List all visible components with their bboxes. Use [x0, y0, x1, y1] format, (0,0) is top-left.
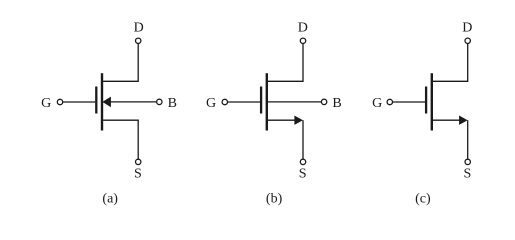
body arrow (a) pointing into channel [102, 97, 111, 108]
wire source lead (b) [268, 119, 296, 121]
gate bar (a) [95, 87, 97, 114]
transistor (b) 4-terminal MOSFET with source arrow [222, 38, 327, 164]
channel bar (b) [266, 73, 268, 130]
svg-text:B: B [168, 96, 177, 111]
transistor (c) 3-terminal MOSFET with source arrow [387, 38, 470, 164]
svg-text:S: S [464, 167, 472, 182]
svg-text:D: D [134, 21, 144, 36]
svg-text:D: D [298, 21, 308, 36]
channel bar (c) [431, 73, 433, 130]
source arrow (c) pointing out [459, 116, 468, 125]
wire body lead (b) [268, 101, 321, 103]
node D terminal circle (b) [300, 38, 305, 43]
svg-text:(c): (c) [415, 192, 431, 207]
channel bar (a) [101, 73, 103, 130]
svg-text:G: G [41, 96, 51, 111]
wire gate lead (b) [228, 101, 260, 103]
svg-text:B: B [332, 96, 341, 111]
transistor (a) 4-terminal MOSFET [57, 38, 162, 164]
gate bar (c) [425, 87, 427, 114]
node S terminal circle (b) [300, 159, 305, 164]
wire source lead (c) [433, 119, 460, 121]
svg-text:G: G [372, 96, 382, 111]
svg-text:S: S [134, 167, 142, 182]
svg-text:(b): (b) [266, 192, 283, 207]
wire body lead (a) [110, 101, 157, 103]
wire drain lead (b) [268, 44, 303, 81]
gate bar (b) [260, 87, 262, 114]
svg-text:D: D [462, 21, 472, 36]
wire source drop (c) [467, 120, 469, 159]
wire drain lead (c) [433, 44, 468, 81]
source arrow (b) pointing out [294, 116, 303, 125]
node G terminal circle (c) [387, 99, 392, 104]
node B terminal circle (b) [321, 99, 326, 104]
node B terminal circle (a) [157, 99, 162, 104]
wire gate lead (c) [393, 101, 425, 103]
node S terminal circle (a) [136, 159, 141, 164]
node D terminal circle (a) [136, 38, 141, 43]
node G terminal circle (a) [57, 99, 62, 104]
wire source drop (b) [302, 120, 304, 159]
svg-text:(a): (a) [102, 192, 118, 207]
svg-text:G: G [206, 96, 216, 111]
wire gate lead (a) [63, 101, 95, 103]
node D terminal circle (c) [465, 38, 470, 43]
svg-text:S: S [299, 167, 307, 182]
wire source lead (a) [103, 120, 138, 159]
node S terminal circle (c) [465, 159, 470, 164]
node G terminal circle (b) [222, 99, 227, 104]
wire drain lead (a) [103, 44, 138, 81]
